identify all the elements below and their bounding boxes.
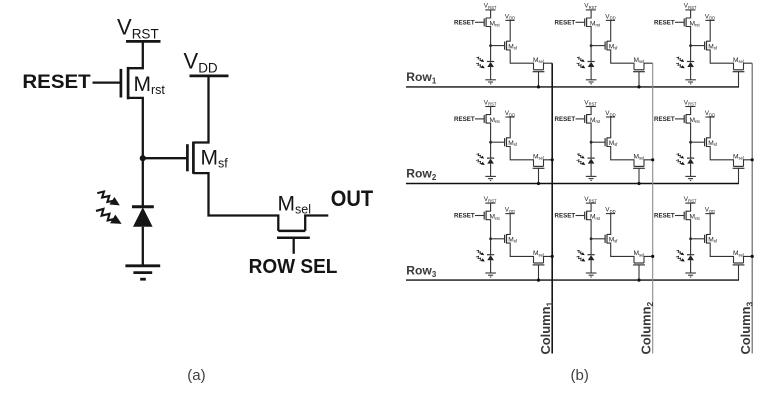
photodiode cathode bar — [132, 205, 154, 208]
svg-text:RESET: RESET — [22, 71, 90, 93]
pixel cell row 1 column 2 (3T APS cell) — [555, 3, 653, 87]
junction: M_sel source of cell (3,1) on Column1 bus — [551, 255, 554, 258]
column output bus Column1 — [551, 63, 553, 353]
supply bar V_DD — [190, 75, 229, 78]
svg-text:(b): (b) — [571, 367, 589, 384]
pixel cell row 2 column 1 (3T APS cell) — [454, 99, 552, 183]
svg-text:Column3: Column3 — [738, 302, 755, 355]
junction: M_sel source of cell (2,2) on Column2 bus — [651, 158, 654, 161]
junction: M_sel gate of cell (1,2) on Row1 line — [637, 85, 640, 88]
transistor M_sf gate bar — [186, 144, 189, 171]
svg-text:ROW SEL: ROW SEL — [249, 255, 338, 278]
pixel cell row 3 column 2 (3T APS cell) — [555, 196, 653, 280]
pixel cell row 1 column 3 (3T APS cell) — [654, 3, 752, 87]
supply bar V_RST — [126, 40, 161, 43]
svg-text:Column2: Column2 — [639, 302, 656, 355]
junction: M_sel gate of cell (3,2) on Row3 line — [637, 279, 640, 282]
junction: M_sel source of cell (3,2) on Column2 bus — [651, 255, 654, 258]
ground symbol — [125, 266, 160, 279]
junction: M_sel gate of cell (2,1) on Row2 line — [537, 182, 540, 185]
node junction dot (sense node) — [140, 155, 146, 161]
svg-text:Column1: Column1 — [538, 302, 555, 355]
transistor M_sel gate bar — [277, 237, 310, 240]
pixel cell row 3 column 3 (3T APS cell) — [654, 196, 752, 280]
column output bus Column3 — [751, 63, 753, 353]
svg-text:(a): (a) — [187, 367, 205, 384]
wire M_sel source to OUT — [305, 216, 328, 231]
row select line Row2 — [406, 183, 739, 185]
wire M_sf source to M_sel drain — [193, 173, 278, 231]
transistor M_sel channel bar — [278, 230, 305, 233]
junction: M_sel gate of cell (2,2) on Row2 line — [637, 182, 640, 185]
wire node to photodiode — [142, 158, 144, 207]
pixel cell row 1 column 1 (3T APS cell) — [454, 3, 552, 87]
junction: M_sel gate of cell (1,1) on Row1 line — [537, 85, 540, 88]
photodiode triangle — [133, 207, 153, 227]
photon arrows — [94, 189, 124, 229]
junction: M_sel source of cell (2,3) on Column3 bus — [751, 158, 754, 161]
pixel cell row 2 column 3 (3T APS cell) — [654, 99, 752, 183]
row select line Row3 — [406, 279, 739, 281]
junction: M_sel gate of cell (3,1) on Row3 line — [537, 279, 540, 282]
wire M_sel gate to ROW SEL — [293, 238, 295, 254]
junction: M_sel source of cell (3,3) on Column3 bus — [751, 255, 754, 258]
wire photodiode to ground — [142, 227, 144, 266]
row select line Row1 — [406, 86, 739, 88]
svg-text:OUT: OUT — [331, 186, 374, 211]
wire node to M_sf gate — [143, 157, 188, 159]
junction: M_sel source of cell (2,1) on Column1 bus — [551, 158, 554, 161]
pixel cell row 2 column 2 (3T APS cell) — [555, 99, 653, 183]
transistor M_rst gate bar — [120, 69, 123, 98]
transistor M_sf channel bar — [192, 142, 195, 174]
wire M_rst source to node — [128, 98, 143, 158]
transistor M_rst channel bar — [127, 67, 130, 99]
pixel cell row 3 column 1 (3T APS cell) — [454, 196, 552, 280]
column output bus Column2 — [652, 63, 654, 353]
wire M_sf drain to V_DD — [193, 76, 208, 143]
wire V_RST to M_rst drain — [128, 41, 143, 68]
wire RESET to M_rst gate — [93, 81, 121, 83]
